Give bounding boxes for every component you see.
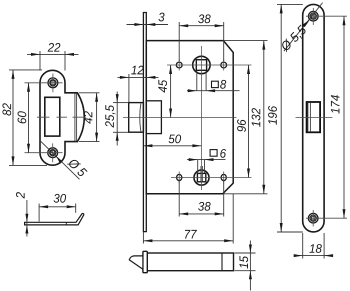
bottom view latch tip (129, 256, 143, 269)
dimension diameter 5,5 leader (284, 3, 323, 52)
dimension 45 (170, 65, 172, 118)
faceplate screw hole top (309, 11, 319, 21)
strike plate cutout centerline (37, 116, 86, 118)
dimension 174 (343, 16, 345, 218)
dimension 82 (9, 70, 47, 165)
centerline horizontal upper (167, 64, 252, 66)
latch bolt edges in window (308, 103, 311, 131)
dimension 2 (26, 200, 28, 237)
strike hole bottom centerlines (25, 143, 63, 162)
latch head (129, 103, 144, 133)
dimension square 8 (187, 71, 240, 91)
dimension 22 (27, 51, 79, 71)
centerline vertical (200, 46, 202, 190)
dimension 12 (118, 74, 159, 102)
centerline horizontal lower (171, 177, 252, 179)
bottom view divider (221, 253, 223, 271)
dimension 96 (248, 65, 250, 178)
faceplate hole bottom centerlines (306, 210, 347, 227)
dimension 50 (143, 145, 201, 147)
upper screw hole right (221, 62, 227, 68)
bottom view faceplate flange (143, 251, 147, 272)
strike plate outline (40, 70, 84, 165)
strike screw hole top (48, 78, 58, 88)
dimension 38 bottom (179, 181, 224, 217)
dimension diameter 5 leader (40, 140, 80, 179)
dimension 196 (277, 4, 303, 232)
lower follower (194, 170, 209, 185)
dimension 15 (235, 241, 256, 291)
screw hole ticks (179, 60, 224, 184)
dimension 38 top (179, 22, 224, 61)
faceplate latch window (307, 102, 321, 132)
bracket seam tick (65, 222, 67, 225)
dimension 18 (294, 233, 333, 259)
dimension 132 (224, 41, 268, 194)
faceplate hole top centerlines (306, 8, 347, 25)
dimension 25,5 (113, 92, 129, 146)
dimension 77 (143, 194, 233, 244)
latch centerline (123, 117, 237, 119)
dimension 60 (28, 83, 30, 153)
lower screw hole right (221, 174, 226, 180)
lower screw hole left (177, 174, 182, 180)
dimension 3 (127, 24, 169, 26)
dimension 42 (79, 93, 100, 142)
dimension square 6 (187, 160, 226, 174)
faceplate window centerline (296, 117, 333, 119)
strike screw hole bottom (48, 148, 58, 158)
lower follower inner lines (201, 166, 203, 182)
strike plate cutout (45, 97, 60, 136)
latch guide box (146, 101, 161, 134)
lower follower square hole (197, 173, 205, 181)
latch head bevel arc (140, 103, 141, 131)
bracket strip with bent lip (25, 213, 84, 224)
upper screw hole left (176, 62, 182, 68)
strike plate bend lines (74, 93, 76, 141)
faceplate strip (143, 13, 146, 232)
faceplate screw hole bottom (308, 213, 318, 223)
dimension 30 (39, 204, 76, 222)
strike hole top centerlines (25, 74, 63, 93)
lock body outline (146, 41, 233, 194)
faceplate outline (303, 4, 324, 232)
upper follower (193, 56, 210, 73)
bottom view case bar (147, 253, 233, 271)
upper follower square hole (196, 60, 206, 71)
